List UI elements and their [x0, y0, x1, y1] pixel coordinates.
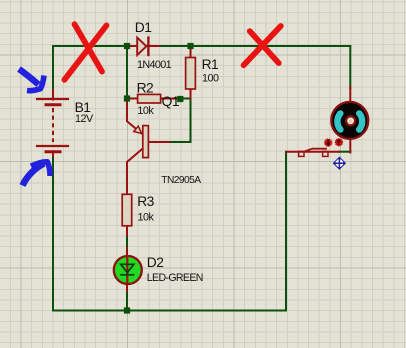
svg-text:D2: D2: [147, 255, 164, 270]
pin diode anode: [129, 45, 137, 47]
svg-text:R2: R2: [137, 80, 154, 95]
pin speaker bottom: [349, 139, 351, 153]
annotation red X right: [244, 26, 281, 65]
junction base node: [177, 96, 183, 102]
wire left upper: [52, 46, 54, 95]
wire branch vertical: [126, 46, 128, 99]
diode D1 triangle: [137, 38, 146, 55]
speaker cyan arc left: [337, 113, 340, 129]
battery B1 plate short top: [46, 103, 60, 106]
origin crosshair marker: [333, 157, 346, 170]
pin Q1 collector: [127, 149, 143, 195]
junction diode-anode node: [124, 43, 130, 49]
battery B1 plate short bottom: [46, 150, 60, 153]
resistor R2 body: [138, 94, 161, 103]
pin speaker top: [349, 87, 351, 102]
wire base node vertical: [190, 99, 192, 143]
annotation red X left: [64, 24, 106, 80]
switch lever: [304, 149, 326, 152]
pin R2 left: [127, 98, 138, 100]
speaker hub: [346, 116, 355, 125]
svg-text:R1: R1: [202, 57, 219, 72]
svg-text:D1: D1: [135, 20, 152, 35]
svg-text:Q1: Q1: [162, 94, 179, 109]
LED through wire: [126, 258, 128, 283]
svg-text:100: 100: [202, 73, 219, 85]
svg-text:R3: R3: [137, 194, 154, 209]
svg-text:TN2905A: TN2905A: [161, 175, 201, 186]
pin Q1 base: [149, 141, 169, 143]
pin R2 right: [161, 98, 176, 100]
LED D2 wire through: [126, 258, 128, 282]
pin LED bottom: [126, 283, 128, 291]
wire top rail: [53, 45, 350, 47]
LED D2 body: [114, 256, 142, 284]
svg-text:10k: 10k: [137, 105, 154, 117]
wire led to bottom: [126, 291, 128, 311]
wire base node horizontal: [176, 98, 191, 100]
transistor Q1 base bar: [143, 126, 149, 158]
pin battery top: [52, 90, 54, 100]
LED D2 diode symbol: [120, 264, 134, 275]
wire bottom rail: [53, 310, 286, 312]
wire switch run: [287, 151, 339, 153]
speaker terminal minus: [325, 139, 332, 146]
transistor Q1 emitter arrow: [134, 126, 142, 133]
pin diode cathode: [148, 45, 158, 47]
junction emitter/R2 node: [124, 95, 130, 101]
battery B1 dashed body: [52, 108, 54, 142]
battery B1 plate long bottom: [37, 145, 68, 147]
wire collector gap: [126, 235, 128, 248]
pin battery bottom: [52, 152, 54, 157]
wire switch to speaker: [339, 151, 350, 153]
junction R1 top: [187, 43, 193, 49]
annotation blue arrow top: [19, 69, 44, 91]
speaker cyan arc right: [359, 113, 362, 129]
wire left lower: [52, 155, 54, 311]
annotation blue arrow bottom: [23, 162, 51, 186]
speaker body: [331, 102, 368, 139]
wire right upper vertical: [349, 46, 351, 88]
svg-text:1N4001: 1N4001: [137, 59, 172, 71]
wire right lower vertical: [285, 152, 287, 311]
diode D1 cathode bar: [147, 38, 149, 55]
svg-text:12V: 12V: [75, 113, 94, 125]
pin R3 bottom: [126, 226, 128, 236]
battery B1 plate long top: [37, 98, 68, 100]
svg-text:LED-GREEN: LED-GREEN: [147, 272, 203, 284]
svg-text:10k: 10k: [138, 212, 155, 224]
junction LED bottom: [124, 307, 130, 313]
switch contact right: [323, 151, 328, 156]
pin LED top: [126, 248, 128, 258]
wire base horizontal: [169, 141, 191, 143]
resistor R1 body: [186, 58, 196, 90]
resistor R3 body: [122, 194, 132, 226]
speaker terminal plus: [335, 139, 342, 146]
pin R1 bottom: [190, 89, 192, 99]
switch contact left: [299, 151, 304, 156]
pin Q1 emitter: [127, 99, 143, 135]
pin R1 top: [190, 46, 192, 58]
